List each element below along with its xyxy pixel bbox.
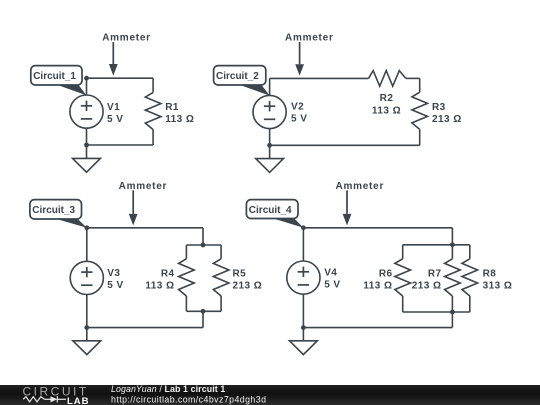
node dot top-left (Circuit_1) <box>84 76 89 81</box>
wire R4 top lead <box>185 245 187 259</box>
svg-text:http://circuitlab.com/c4bvz7p4: http://circuitlab.com/c4bvz7p4dgh3d <box>111 394 266 404</box>
wire R8 bottom lead <box>469 296 471 312</box>
svg-text:Circuit_3: Circuit_3 <box>32 205 75 216</box>
svg-text:Ammeter: Ammeter <box>119 181 168 192</box>
svg-text:213 Ω: 213 Ω <box>233 281 263 292</box>
node dot top junction (Circuit_4) <box>450 242 455 247</box>
wire feed down (Circuit_4) <box>451 228 453 245</box>
svg-text:113 Ω: 113 Ω <box>145 281 174 292</box>
node dot top-left (Circuit_4) <box>301 225 306 230</box>
wire bottom (Circuit_3) <box>87 327 203 329</box>
svg-text:213 Ω: 213 Ω <box>412 281 442 292</box>
wire ground stem (Circuit_3) <box>86 328 88 345</box>
logo wire after diode <box>57 398 66 400</box>
svg-text:R6: R6 <box>379 268 393 279</box>
node dot bottom-left (Circuit_2) <box>267 143 272 148</box>
node dot bottom-left (Circuit_3) <box>84 325 89 330</box>
resistor R7 <box>445 259 461 296</box>
net label Circuit_1 <box>56 84 87 95</box>
wire bottom stub (Circuit_3) <box>186 310 221 312</box>
svg-text:113 Ω: 113 Ω <box>372 106 401 117</box>
footer bar <box>0 385 540 405</box>
wire top left segment (Circuit_2) <box>270 77 369 79</box>
svg-text:LAB: LAB <box>67 396 90 405</box>
svg-text:Circuit_2: Circuit_2 <box>216 71 259 82</box>
resistor R1 <box>145 92 161 129</box>
svg-text:R7: R7 <box>428 268 442 279</box>
voltage source V4 <box>287 261 320 294</box>
svg-text:R5: R5 <box>233 268 247 279</box>
wire V2 top lead <box>269 78 271 95</box>
net label Circuit_2 <box>238 84 270 95</box>
node dot bottom junction (Circuit_4) <box>450 310 455 315</box>
resistor R6 <box>395 259 411 296</box>
wire R4 bottom lead <box>185 296 187 311</box>
wire V1 bottom lead <box>86 128 88 145</box>
logo wire to diode <box>45 398 51 400</box>
svg-text:R3: R3 <box>432 102 446 113</box>
wire V3 bottom lead <box>86 295 88 328</box>
resistor R4 <box>179 259 195 296</box>
svg-text:113 Ω: 113 Ω <box>165 114 194 125</box>
wire R3 top lead <box>419 78 421 92</box>
wire V1 top lead <box>86 78 88 95</box>
wire feed down bottom (Circuit_3) <box>202 311 204 327</box>
wire V4 top lead <box>302 228 304 261</box>
wire bottom (Circuit_2) <box>270 144 420 146</box>
wire R1 bottom lead <box>152 130 154 145</box>
svg-text:213 Ω: 213 Ω <box>432 114 462 125</box>
wire R7 top lead <box>451 245 453 259</box>
svg-text:113 Ω: 113 Ω <box>363 281 392 292</box>
wire top (Circuit_1) <box>87 77 154 79</box>
node dot top-left (Circuit_3) <box>84 225 89 230</box>
wire feed down bottom (Circuit_4) <box>451 312 453 328</box>
node dot top junction (Circuit_3) <box>201 243 206 248</box>
node dot bottom-left (Circuit_1) <box>84 143 89 148</box>
wire V2 bottom lead <box>269 129 271 146</box>
voltage source V3 <box>70 261 103 294</box>
resistor R2 <box>369 71 406 87</box>
svg-text:V4: V4 <box>324 268 337 279</box>
voltage source V1 <box>70 95 103 128</box>
wire ground stem (Circuit_4) <box>302 328 304 345</box>
svg-text:R8: R8 <box>483 268 497 279</box>
svg-text:V3: V3 <box>107 268 120 279</box>
ground (Circuit_2) <box>256 159 284 173</box>
ground (Circuit_3) <box>73 341 101 355</box>
wire R8 top lead <box>469 245 471 259</box>
net label Circuit_4 <box>271 218 303 228</box>
svg-text:R4: R4 <box>161 268 175 279</box>
svg-text:5 V: 5 V <box>291 114 307 125</box>
wire R3 bottom lead <box>419 129 421 145</box>
wire feed down (Circuit_3) <box>202 228 204 245</box>
wire top (Circuit_3) <box>87 227 203 229</box>
wire ground stem (Circuit_1) <box>86 145 88 162</box>
svg-text:V2: V2 <box>291 102 304 113</box>
wire bottom (Circuit_1) <box>87 144 154 146</box>
wire bottom stub (Circuit_4) <box>403 311 470 313</box>
svg-text:313 Ω: 313 Ω <box>483 281 513 292</box>
net label Circuit_3 <box>54 218 87 228</box>
svg-text:5 V: 5 V <box>107 114 123 125</box>
voltage source V2 <box>253 95 286 128</box>
wire V4 bottom lead <box>302 294 304 327</box>
node dot bottom-left (Circuit_4) <box>301 325 306 330</box>
wire R7 bottom lead <box>451 296 453 312</box>
logo resistor glyph <box>23 397 44 402</box>
wire R6 top lead <box>402 245 404 259</box>
wire R5 top lead <box>220 245 222 259</box>
node dot bottom junction (Circuit_3) <box>201 309 206 314</box>
wire ground stem (Circuit_2) <box>269 145 271 162</box>
svg-text:Ammeter: Ammeter <box>335 181 384 192</box>
svg-text:R2: R2 <box>380 93 394 104</box>
wire top stub (Circuit_3) <box>186 244 221 246</box>
svg-text:R1: R1 <box>165 102 179 113</box>
wire bottom (Circuit_4) <box>303 327 452 329</box>
svg-text:5 V: 5 V <box>324 280 340 291</box>
wire top (Circuit_4) <box>303 227 452 229</box>
svg-text:Ammeter: Ammeter <box>102 33 151 44</box>
ground (Circuit_1) <box>73 158 101 172</box>
svg-text:V1: V1 <box>107 102 120 113</box>
ground (Circuit_4) <box>290 341 318 355</box>
resistor R5 <box>213 259 229 296</box>
logo diode D <box>51 396 58 402</box>
wire R1 top lead <box>152 78 154 92</box>
svg-text:Circuit_4: Circuit_4 <box>249 205 292 216</box>
wire V3 top lead <box>86 228 88 261</box>
svg-text:Ammeter: Ammeter <box>285 33 334 44</box>
svg-text:LoganYuan / Lab 1 circuit 1: LoganYuan / Lab 1 circuit 1 <box>111 384 225 394</box>
wire top right segment (Circuit_2) <box>406 77 420 79</box>
wire R5 bottom lead <box>220 296 222 311</box>
wire top stub (Circuit_4) <box>403 244 470 246</box>
svg-text:5 V: 5 V <box>107 280 123 291</box>
svg-text:Circuit_1: Circuit_1 <box>33 71 76 82</box>
resistor R3 <box>412 92 428 129</box>
wire R6 bottom lead <box>402 296 404 312</box>
resistor R8 <box>462 259 478 296</box>
